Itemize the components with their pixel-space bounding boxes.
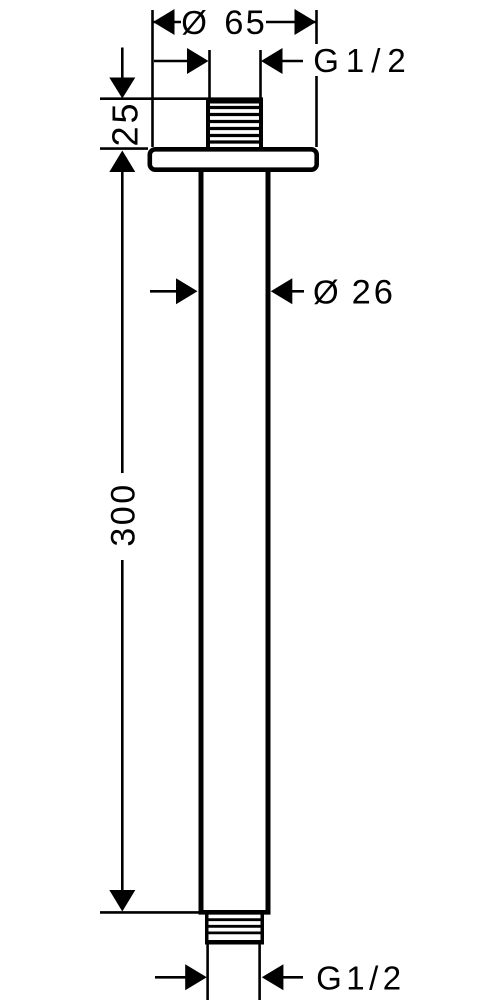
dimension G1/2 bottom: right-pointing arrowhead [185,964,207,990]
bottom thread: hatched thread section [205,914,264,945]
dimension Ø65: left extension line [151,10,154,147]
dimension Ø26: right-pointing arrowhead [176,278,198,304]
dimension G1/2 bottom: dimension line left segment [155,976,186,979]
dimension 300: dimension line lower segment [121,560,124,890]
shower arm pipe: right wall [266,172,271,912]
dimension G1/2 bottom: left extension line [206,944,209,1000]
shower arm pipe: bottom shoulder [199,910,271,915]
dimension 300: upward arrowhead [109,151,135,173]
dimension G1/2 top: left-pointing arrowhead [261,48,283,74]
dimension G1/2 bottom: dimension line right segment [283,976,303,979]
dimension Ø65: right extension line [315,10,318,147]
dimension G1/2 top: left extension line [208,50,211,99]
dimension G1/2 top: dimension line left segment [154,60,190,63]
svg-text:G1/2: G1/2 [313,42,413,79]
svg-text:G1/2: G1/2 [316,959,406,996]
dimension Ø26: dimension line left segment [150,290,178,293]
dimension Ø26: left-pointing arrowhead [271,278,293,304]
dimension 300: downward arrowhead [109,890,135,912]
dimension 300: bottom extension line (pipe end) [100,911,200,914]
dimension Ø65: right arrowhead [295,9,317,35]
svg-text:Ø65: Ø65 [181,4,267,42]
dimension Ø26: dimension line right segment [292,290,304,293]
top thread: hatched thread section [206,99,263,148]
svg-text:Ø26: Ø26 [313,274,396,312]
dimension Ø65: left arrowhead [153,9,175,35]
dimension 300: dimension line upper segment [121,172,124,473]
dimension 25: downward arrowhead [109,78,135,99]
dimension 25: top extension line (ceiling/thread top) [100,97,263,100]
dimension G1/2 bottom: right extension line [258,944,261,1000]
dimension G1/2 top: dimension line right segment [280,60,303,63]
dimension Ø65: dimension line right segment [266,21,316,24]
dimension Ø65: dimension line left segment [153,21,181,24]
dimension 25: bottom extension line (flange top) [100,147,148,150]
dimension G1/2 top: label background mask [312,44,406,76]
svg-text:300: 300 [105,482,143,546]
dimension G1/2 top: right-pointing arrowhead [187,48,209,74]
svg-text:25: 25 [105,100,146,146]
ceiling flange plate [150,149,317,169]
shower arm pipe: left wall [199,172,204,912]
dimension G1/2 bottom: left-pointing arrowhead [262,964,284,990]
dimension G1/2 top: right extension line [259,50,262,99]
dimension 25: upper dimension line segment [121,48,124,79]
